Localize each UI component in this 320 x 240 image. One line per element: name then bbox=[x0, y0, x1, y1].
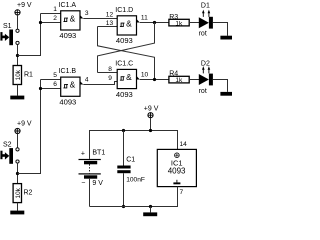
wire ground stub bbox=[150, 207, 152, 213]
wire +9V to S2 bbox=[17, 134, 19, 148]
LED D2 arrows bbox=[203, 69, 209, 74]
switch S2 bbox=[0, 148, 19, 164]
wire R3 to D1 bbox=[189, 22, 199, 24]
wire latch D-out down bbox=[98, 23, 155, 73]
wire pin1 bbox=[41, 13, 61, 15]
svg-text:8: 8 bbox=[108, 66, 112, 73]
svg-text:−: − bbox=[81, 180, 85, 187]
svg-text:10k: 10k bbox=[15, 187, 22, 198]
gate IC1.C bbox=[117, 69, 140, 88]
wire +9V to S1 bbox=[17, 15, 19, 29]
wire C1 top bbox=[123, 131, 125, 166]
junction pin2 bbox=[39, 21, 42, 24]
wire pin10 to R4 bbox=[140, 79, 169, 81]
svg-text:R2: R2 bbox=[24, 190, 33, 197]
svg-text:10k: 10k bbox=[15, 69, 22, 80]
svg-text:C1: C1 bbox=[126, 156, 135, 163]
wire pin6 bbox=[41, 88, 61, 90]
junction pin6 bbox=[39, 87, 42, 90]
junction C1 top bbox=[122, 129, 125, 132]
svg-text:D1: D1 bbox=[201, 2, 210, 9]
svg-text:BT1: BT1 bbox=[92, 150, 105, 157]
wire node to IC1.A inputs bbox=[18, 14, 41, 56]
svg-text:&: & bbox=[126, 18, 132, 28]
wire D2 to ground bbox=[213, 80, 228, 92]
wire pin5 bbox=[41, 79, 61, 81]
svg-text:4: 4 bbox=[85, 77, 89, 84]
wire battery to bottom rail bbox=[89, 179, 91, 207]
svg-text:5: 5 bbox=[53, 72, 57, 79]
wire pin3 to pin12 bbox=[83, 18, 117, 20]
wire node to IC1.B inputs bbox=[18, 80, 41, 174]
svg-text:IC1.A: IC1.A bbox=[59, 2, 77, 9]
junction +9V rail bbox=[149, 129, 152, 132]
wire pin8 bbox=[98, 72, 118, 74]
svg-text:1k: 1k bbox=[175, 21, 183, 28]
svg-text:9: 9 bbox=[108, 75, 112, 82]
wire latch pin13 down cross bbox=[98, 27, 155, 80]
+9V terminal power bbox=[148, 113, 153, 118]
svg-text:6: 6 bbox=[53, 81, 57, 88]
wire pin4 to pin9 bbox=[83, 82, 117, 85]
wire pin11 to R3 bbox=[140, 22, 169, 24]
svg-text:2: 2 bbox=[53, 15, 57, 22]
wire pin13 bbox=[98, 26, 118, 28]
wire R1 to ground bbox=[17, 85, 19, 96]
ground D1 bbox=[220, 36, 232, 40]
svg-text:100nF: 100nF bbox=[126, 176, 145, 183]
svg-text:rot: rot bbox=[199, 88, 207, 95]
svg-text:4093: 4093 bbox=[116, 90, 133, 99]
wire S1 to node bbox=[17, 45, 19, 66]
svg-text:9 V: 9 V bbox=[92, 180, 103, 187]
+9V terminal S1 bbox=[15, 10, 20, 15]
svg-text:D2: D2 bbox=[201, 60, 210, 67]
svg-text:4093: 4093 bbox=[116, 36, 133, 45]
IC1 power block bbox=[157, 149, 196, 186]
svg-text:S1: S1 bbox=[3, 23, 12, 30]
LED D1 bbox=[199, 17, 209, 28]
svg-text:&: & bbox=[70, 80, 76, 90]
capacitor C1 bbox=[117, 166, 130, 169]
resistor R4 bbox=[169, 76, 189, 83]
ground R2 bbox=[10, 211, 24, 215]
node S2/R2/IC1.B junction bbox=[16, 172, 19, 175]
resistor R3 bbox=[169, 19, 189, 26]
svg-text:10: 10 bbox=[141, 72, 149, 79]
+9V terminal S2 bbox=[15, 128, 20, 133]
svg-text:+9 V: +9 V bbox=[144, 106, 159, 113]
junction C1 bottom bbox=[122, 205, 125, 208]
gate IC1.D bbox=[117, 16, 140, 35]
wire D1 to ground bbox=[213, 23, 228, 36]
svg-text:7: 7 bbox=[180, 189, 184, 196]
svg-text:R1: R1 bbox=[24, 72, 33, 79]
LED D2 bbox=[199, 74, 209, 85]
svg-text:+: + bbox=[81, 150, 85, 157]
ground D2 bbox=[220, 92, 232, 96]
svg-text:+9 V: +9 V bbox=[17, 2, 32, 9]
wire pin7 to bottom rail bbox=[90, 187, 178, 207]
wire top power rail bbox=[90, 131, 178, 159]
gate IC1.B bbox=[61, 77, 84, 96]
svg-text:S2: S2 bbox=[3, 142, 12, 149]
svg-text:3: 3 bbox=[85, 10, 89, 17]
svg-text:11: 11 bbox=[141, 15, 148, 22]
svg-text:&: & bbox=[126, 72, 132, 82]
svg-text:12: 12 bbox=[106, 12, 114, 19]
wire +9V to rail bbox=[150, 118, 152, 131]
svg-text:&: & bbox=[70, 13, 76, 23]
resistor R2 bbox=[13, 184, 21, 203]
wire pin2 bbox=[41, 22, 61, 24]
wire C1 bottom bbox=[123, 173, 125, 206]
svg-text:1: 1 bbox=[53, 6, 57, 13]
junction bottom ground bbox=[149, 205, 152, 208]
node S1/R1/IC1.A junction bbox=[16, 54, 19, 57]
wire R2 to ground bbox=[17, 203, 19, 211]
ground R1 bbox=[10, 96, 24, 100]
svg-text:1k: 1k bbox=[175, 77, 183, 84]
svg-text:rot: rot bbox=[199, 30, 207, 37]
svg-text:14: 14 bbox=[180, 141, 188, 148]
wire S2 to node bbox=[17, 163, 19, 184]
switch S1 bbox=[0, 29, 19, 45]
gate IC1.A bbox=[61, 11, 84, 30]
svg-text:4093: 4093 bbox=[59, 98, 76, 107]
resistor R1 bbox=[13, 66, 21, 85]
wire R4 to D2 bbox=[189, 79, 199, 81]
svg-text:+9 V: +9 V bbox=[17, 121, 32, 128]
ground power bbox=[143, 212, 157, 216]
junction C out bbox=[153, 78, 156, 81]
battery BT1 bbox=[79, 159, 101, 179]
junction D out bbox=[153, 21, 156, 24]
svg-text:4093: 4093 bbox=[59, 31, 76, 40]
LED D1 arrows bbox=[203, 12, 209, 17]
svg-text:4093: 4093 bbox=[168, 166, 186, 175]
svg-text:IC1.B: IC1.B bbox=[59, 68, 77, 75]
svg-text:IC1.D: IC1.D bbox=[115, 7, 133, 14]
svg-text:IC1.C: IC1.C bbox=[115, 60, 133, 67]
